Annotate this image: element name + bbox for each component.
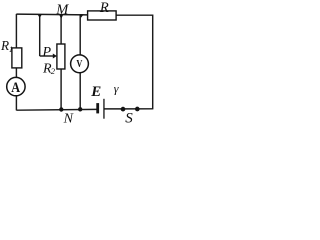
svg-text:γ: γ [114,82,119,96]
svg-text:A: A [11,80,20,96]
svg-text:E: E [90,84,101,100]
svg-text:N: N [63,111,74,124]
svg-text:R: R [0,38,9,53]
svg-text:R: R [99,0,109,16]
svg-text:2: 2 [51,66,56,76]
svg-text:P: P [42,45,52,60]
svg-text:M: M [55,2,69,18]
svg-text:1: 1 [9,44,13,54]
svg-text:V: V [76,59,82,70]
svg-text:S: S [125,110,133,124]
